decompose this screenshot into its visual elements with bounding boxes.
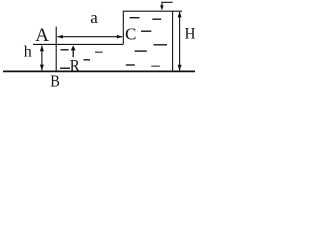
svg-text:R: R xyxy=(70,56,80,75)
svg-text:a: a xyxy=(90,8,98,27)
svg-text:A: A xyxy=(35,25,49,46)
svg-text:h: h xyxy=(24,43,32,60)
svg-text:H: H xyxy=(185,23,196,42)
svg-text:B: B xyxy=(50,71,60,90)
svg-text:C: C xyxy=(125,25,136,44)
